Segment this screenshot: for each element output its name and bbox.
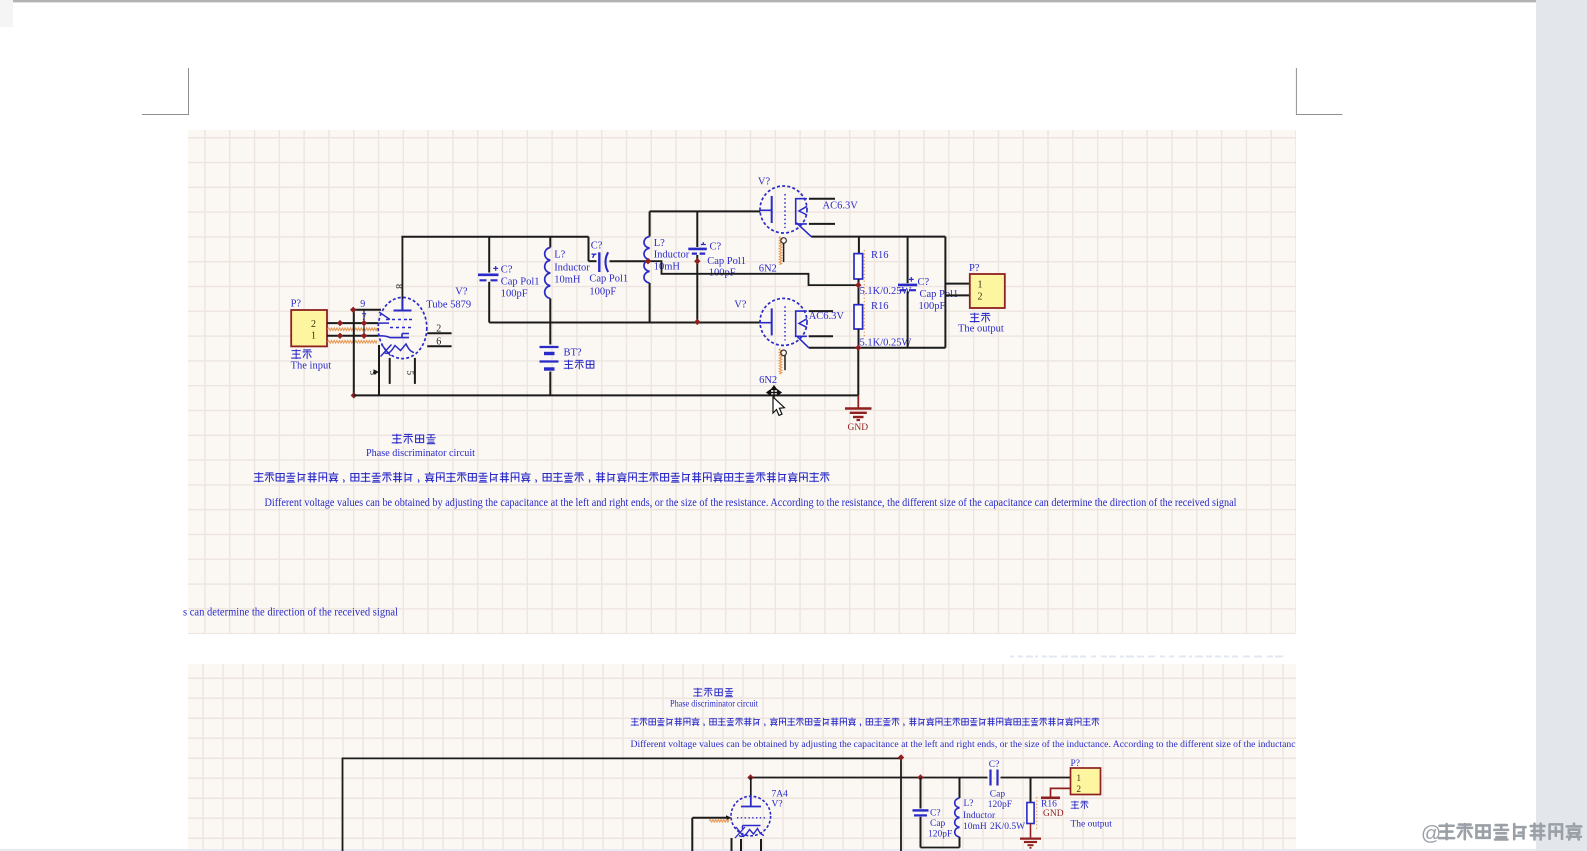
svg-text:Inductor: Inductor bbox=[654, 250, 690, 261]
svg-text:120pF: 120pF bbox=[988, 800, 1012, 810]
svg-text:120pF: 120pF bbox=[928, 829, 952, 839]
svg-text:Cap Pol1: Cap Pol1 bbox=[920, 289, 959, 300]
svg-text:Cap Pol1: Cap Pol1 bbox=[501, 276, 540, 287]
svg-text:P?: P? bbox=[291, 299, 302, 310]
svg-text:Different voltage values can b: Different voltage values can be obtained… bbox=[631, 739, 1297, 750]
svg-text:2: 2 bbox=[311, 319, 316, 330]
svg-text:Inductor: Inductor bbox=[554, 262, 590, 273]
svg-text:Phase discriminator circuit: Phase discriminator circuit bbox=[670, 699, 758, 710]
svg-text:P?: P? bbox=[969, 263, 980, 274]
svg-text:6N2: 6N2 bbox=[759, 263, 777, 274]
svg-text:Phase discriminator circuit: Phase discriminator circuit bbox=[366, 447, 475, 459]
svg-text:2: 2 bbox=[436, 324, 441, 335]
svg-text:GND: GND bbox=[1043, 809, 1064, 819]
svg-text:100pF: 100pF bbox=[919, 301, 946, 312]
svg-text:Cap Pol1: Cap Pol1 bbox=[707, 256, 746, 267]
svg-text:5: 5 bbox=[404, 370, 414, 375]
svg-text:1: 1 bbox=[978, 279, 983, 290]
svg-text:5.1K/0.25W: 5.1K/0.25W bbox=[860, 337, 912, 348]
svg-text:V?: V? bbox=[734, 299, 747, 310]
svg-text:2: 2 bbox=[978, 291, 983, 302]
svg-text:R16: R16 bbox=[871, 301, 889, 312]
svg-text:C?: C? bbox=[930, 808, 941, 818]
svg-text:L?: L? bbox=[654, 238, 665, 249]
svg-text:R16: R16 bbox=[871, 250, 889, 261]
svg-text:10mH: 10mH bbox=[554, 274, 581, 285]
svg-text:Cap: Cap bbox=[990, 790, 1006, 800]
svg-text:C?: C? bbox=[710, 241, 722, 252]
svg-text:2K/0.5W: 2K/0.5W bbox=[990, 822, 1025, 832]
svg-text:2: 2 bbox=[1077, 784, 1082, 794]
svg-text:C?: C? bbox=[501, 264, 513, 275]
svg-text:V?: V? bbox=[455, 287, 468, 298]
svg-text:6: 6 bbox=[436, 336, 441, 347]
svg-text:s can determine the direction: s can determine the direction of the rec… bbox=[183, 607, 398, 619]
svg-text:100pF: 100pF bbox=[589, 286, 616, 297]
svg-text:8: 8 bbox=[393, 284, 403, 289]
svg-text:C?: C? bbox=[989, 760, 1000, 770]
svg-text:V?: V? bbox=[772, 800, 783, 810]
svg-text:7A4: 7A4 bbox=[772, 790, 789, 800]
svg-text:AC6.3V: AC6.3V bbox=[809, 311, 845, 322]
svg-text:1: 1 bbox=[1077, 773, 1082, 783]
svg-text:The input: The input bbox=[291, 361, 332, 372]
svg-text:The output: The output bbox=[1071, 820, 1113, 830]
svg-text:Cap Pol1: Cap Pol1 bbox=[589, 273, 628, 284]
svg-text:R16: R16 bbox=[1041, 800, 1057, 810]
svg-text:1: 1 bbox=[311, 331, 316, 342]
svg-text:Cap: Cap bbox=[930, 819, 946, 829]
svg-text:C?: C? bbox=[591, 240, 603, 251]
svg-text:3: 3 bbox=[367, 370, 377, 375]
svg-text:L?: L? bbox=[964, 799, 974, 809]
svg-text:6N2: 6N2 bbox=[759, 375, 777, 386]
svg-text:P?: P? bbox=[1071, 759, 1081, 769]
svg-text:V?: V? bbox=[758, 176, 771, 187]
svg-text:L?: L? bbox=[554, 249, 565, 260]
svg-text:BT?: BT? bbox=[564, 347, 582, 358]
svg-text:Different voltage values can b: Different voltage values can be obtained… bbox=[265, 497, 1237, 509]
svg-text:10mH: 10mH bbox=[963, 822, 987, 832]
svg-text:Tube 5879: Tube 5879 bbox=[426, 300, 471, 311]
svg-text:GND: GND bbox=[848, 423, 869, 433]
svg-text:9: 9 bbox=[360, 299, 365, 310]
svg-text:100pF: 100pF bbox=[501, 288, 528, 299]
svg-text:Inductor: Inductor bbox=[963, 811, 996, 821]
svg-text:10mH: 10mH bbox=[654, 262, 681, 273]
svg-text:C?: C? bbox=[918, 277, 930, 288]
svg-text:The output: The output bbox=[958, 323, 1004, 334]
svg-text:AC6.3V: AC6.3V bbox=[823, 201, 859, 212]
svg-text:@: @ bbox=[1421, 823, 1441, 845]
